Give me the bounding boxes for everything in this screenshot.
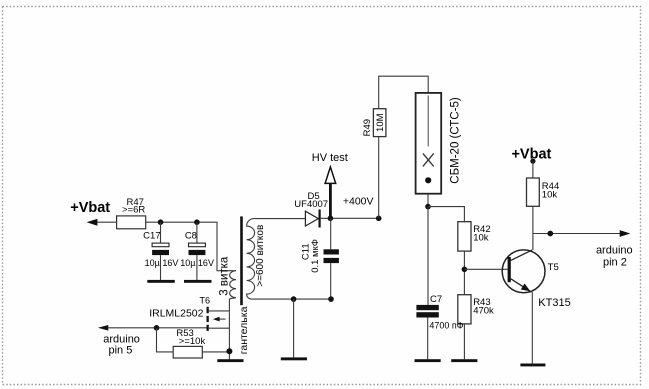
node base junction: [462, 267, 468, 273]
resistor R47: [117, 216, 146, 229]
wire R42 bottom: [463, 251, 465, 295]
svg-text:СБМ-20 (СТС-5): СБМ-20 (СТС-5): [450, 97, 462, 184]
svg-text:T6: T6: [200, 296, 211, 306]
wire +Vbat to R44: [532, 161, 534, 178]
svg-text:C17: C17: [143, 231, 160, 242]
svg-text:+400V: +400V: [343, 196, 374, 208]
wire rail to C17: [160, 222, 162, 243]
capacitor C8: [189, 243, 206, 280]
wire R47 to transformer primary top: [146, 222, 236, 271]
ground R43: [451, 359, 477, 362]
svg-text:UF4007: UF4007: [294, 199, 328, 210]
svg-text:KT315: KT315: [538, 297, 570, 309]
wire +Vbat rail to R47: [97, 221, 117, 223]
node R53 left junction: [154, 325, 160, 331]
svg-text:10M: 10M: [375, 113, 386, 132]
svg-text:arduino: arduino: [596, 245, 633, 257]
node HV test junction: [328, 216, 334, 222]
svg-text:R49: R49: [362, 119, 373, 136]
node junction C8: [194, 219, 200, 225]
svg-text:10k: 10k: [473, 232, 489, 243]
node C11 bottom junction: [328, 296, 334, 302]
svg-text:0.1 мкФ: 0.1 мкФ: [310, 239, 321, 273]
svg-text:10µ 16V: 10µ 16V: [180, 258, 214, 268]
tube anode wire: [427, 96, 429, 147]
arrow arduino pin 5: [98, 325, 108, 331]
wire diode to R49 junction: [321, 217, 379, 219]
svg-text:HV test: HV test: [312, 152, 348, 164]
wire tube bottom: [427, 194, 429, 207]
svg-text:>=600 витков: >=600 витков: [255, 225, 266, 287]
wire source: [209, 327, 230, 329]
ground mosfet source: [217, 359, 243, 362]
wire junction to R42: [428, 207, 464, 222]
wire R49 top to tube: [379, 76, 429, 109]
node tube bottom junction: [425, 204, 431, 210]
svg-text:470k: 470k: [473, 305, 494, 316]
wire junction to C7: [427, 207, 429, 305]
arrow arduino pin 2: [620, 230, 631, 237]
node +Vbat dot: [530, 159, 535, 164]
svg-text:+Vbat: +Vbat: [70, 200, 110, 216]
transformer secondary winding: [247, 219, 331, 300]
resistor R43: [458, 295, 471, 324]
ground middle: [281, 357, 307, 360]
wire R43 bottom: [463, 324, 465, 359]
wire output arduino pin 2: [533, 233, 621, 235]
resistor R44: [527, 178, 540, 206]
capacitor C11: [324, 218, 339, 299]
wire R49 bottom: [378, 137, 380, 219]
arrow +Vbat left: [87, 219, 98, 226]
svg-text:10µ 16V: 10µ 16V: [145, 258, 179, 268]
node output junction: [547, 231, 553, 237]
svg-text:>=10k: >=10k: [179, 336, 206, 347]
wire base: [464, 268, 507, 270]
diode D5: [305, 210, 319, 228]
svg-text:T5: T5: [548, 262, 559, 273]
svg-text:C7: C7: [430, 294, 442, 305]
ground C7: [415, 359, 441, 362]
tube cross mark: [423, 153, 434, 166]
transformer core: [240, 216, 243, 305]
capacitor C17: [152, 243, 169, 280]
resistor R42: [458, 222, 471, 251]
node junction C17: [158, 219, 164, 225]
svg-text:>=6R: >=6R: [122, 205, 145, 216]
wire junction down to R53: [157, 328, 174, 352]
svg-text:3 витка: 3 витка: [218, 256, 230, 296]
transistor T5: [502, 250, 545, 293]
node secondary bottom junction: [291, 296, 297, 302]
wire gate: [108, 327, 207, 329]
svg-text:10k: 10k: [542, 190, 558, 201]
svg-text:pin 5: pin 5: [108, 345, 132, 357]
node source ground junction: [226, 348, 232, 354]
ground C17: [147, 280, 175, 283]
wire middle ground: [293, 299, 295, 357]
wire drain to primary: [209, 310, 230, 312]
transformer primary winding: [229, 271, 236, 299]
wire R44 to collector: [532, 206, 534, 250]
transistor T6 drain-source bar: [207, 307, 209, 331]
svg-text:4700 пФ: 4700 пФ: [429, 321, 463, 331]
svg-text:pin 2: pin 2: [603, 256, 627, 268]
wire R53 right: [202, 351, 229, 353]
svg-text:IRLML2502: IRLML2502: [149, 307, 203, 319]
wire mosfet right vertical: [228, 299, 230, 360]
wire emitter to ground: [531, 292, 533, 363]
HV test arrow: [325, 167, 336, 217]
ground C8: [184, 280, 212, 283]
resistor R49: [373, 109, 386, 137]
transistor T6 substrate arrow: [213, 317, 226, 322]
tube SBM-20: [416, 93, 442, 194]
ground T5 emitter: [520, 364, 545, 367]
svg-text:гантелька: гантелька: [238, 306, 250, 354]
wire rail to C8: [196, 222, 198, 243]
tube cathode dot: [425, 177, 431, 183]
capacitor C7: [416, 305, 438, 359]
svg-text:C8: C8: [185, 231, 197, 242]
resistor R53: [173, 346, 202, 358]
node R49 bottom junction: [376, 216, 382, 222]
